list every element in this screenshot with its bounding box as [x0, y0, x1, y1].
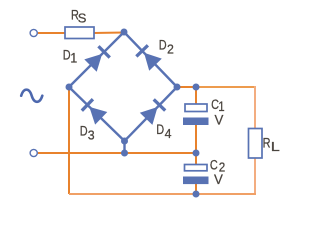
svg-text:V: V [215, 112, 225, 127]
diode D3 [81, 99, 107, 125]
wire right bridge node to C1 branch [177, 86, 196, 88]
wire RL to bottom rail [254, 157, 256, 194]
node left vertex [66, 84, 73, 91]
node C2 bottom rail [193, 191, 200, 198]
terminal bottom input [30, 149, 37, 156]
svg-text:D: D [80, 123, 88, 139]
node bottom vertex to rail [121, 150, 128, 157]
label RS [71, 7, 79, 23]
wire C1 top connection [195, 87, 197, 105]
label D4 [156, 122, 164, 138]
diode D2 [136, 45, 162, 71]
wire bottom input from terminal to node at C2 [38, 152, 196, 154]
svg-text:4: 4 [165, 127, 172, 141]
node top vertex [121, 29, 128, 36]
wire top input from terminal to RS [38, 32, 66, 34]
label RL [263, 135, 271, 151]
svg-text:1: 1 [70, 50, 77, 66]
svg-text:D: D [156, 122, 164, 138]
wire RS to top bridge node [93, 32, 124, 35]
label C1 [211, 97, 219, 113]
ac source sine [21, 90, 42, 102]
terminal top input [30, 29, 37, 36]
svg-text:L: L [271, 140, 280, 154]
svg-text:S: S [78, 11, 87, 26]
node C2 top [193, 150, 200, 157]
node bottom vertex [121, 138, 128, 145]
svg-text:3: 3 [88, 128, 95, 142]
label V of C2 [214, 172, 224, 187]
wire C2 bottom to bottom rail [195, 183, 197, 194]
wire C1 bottom to C2 node [195, 124, 197, 165]
wire right vertical down to RL [254, 86, 256, 129]
node right vertex [174, 84, 181, 91]
label V of C1 [215, 112, 225, 127]
wire bottom vertex to input rail [123, 141, 125, 153]
bridge side top-left [69, 32, 124, 87]
capacitor C1 [183, 104, 209, 125]
diode D4 [140, 99, 166, 125]
label C2 [210, 157, 218, 173]
bridge side bottom-left [69, 87, 125, 141]
svg-text:R: R [263, 135, 271, 151]
diode D1 [84, 46, 110, 72]
bridge side bottom-right [125, 87, 178, 141]
svg-text:D: D [159, 37, 167, 53]
wire bottom rail [69, 193, 256, 195]
svg-text:C: C [210, 157, 218, 173]
svg-text:V: V [214, 172, 224, 187]
wire left vertical from left bridge node down to bottom rail [68, 87, 70, 194]
resistor RL [249, 129, 263, 159]
label D2 [159, 37, 167, 53]
bridge side top-right [124, 32, 177, 87]
label D3 [80, 123, 88, 139]
capacitor C2 [183, 165, 209, 185]
resistor RS [65, 27, 94, 39]
wire top output horizontal to right [196, 86, 254, 88]
node C1 top branch [193, 84, 200, 91]
svg-text:2: 2 [167, 42, 174, 56]
label D1 [63, 47, 71, 63]
